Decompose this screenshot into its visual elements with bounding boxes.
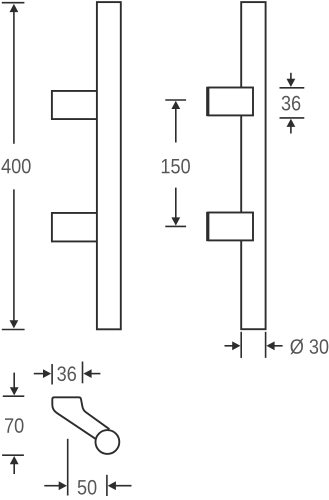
dim 150 line upper segment [175, 107, 177, 143]
mounting block 2 (left view) [52, 213, 97, 242]
dim 36 right: bottom tick [280, 117, 305, 119]
dim 36 right: arrow tail bottom [290, 125, 292, 134]
block 2 thick left edge [206, 212, 209, 241]
handle bar (left side view) [97, 2, 121, 329]
dim 50 arrowhead right [59, 481, 67, 490]
dim 50: right tick [106, 475, 108, 496]
dim d30 left arrow tail [225, 345, 234, 347]
dim d30 arrowhead left [266, 341, 274, 350]
dim 50: left extension line [67, 439, 69, 496]
dim 150 arrowhead down [171, 217, 180, 225]
label 400 [2, 159, 31, 174]
dim 36 side arrowhead left [83, 369, 91, 378]
dim 70: top tick [3, 395, 25, 397]
block 1 thick left edge [206, 87, 209, 116]
dim 36 side: right tick [82, 362, 84, 384]
label 36 (foot width) [57, 366, 76, 381]
handle bar (right front view) [241, 2, 265, 329]
dim 70: bottom arrow tail [13, 463, 15, 474]
dim d30 right arrow tail [274, 345, 283, 347]
dim 150 top tick [165, 99, 186, 101]
dim d30 right extension line [265, 332, 267, 358]
dim 150 arrowhead up [171, 101, 180, 109]
dim 36 right: top tick [280, 87, 305, 89]
dim 50: left arrow tail [44, 485, 59, 487]
side profile view (bottom-left): grip arm [52, 397, 109, 438]
dim 36 side arrowhead right [43, 369, 51, 378]
dim 70: top arrow tail [13, 373, 15, 389]
dim 36 side: left arrow tail [34, 373, 44, 375]
dim 36 right arrowhead down [287, 79, 296, 87]
dim 50 arrowhead left [108, 481, 116, 490]
dim 36 side: left tick [51, 364, 53, 385]
label diameter 30 [290, 339, 328, 354]
mounting block 2 (front view) [208, 213, 253, 241]
grip rod cross-section circle [96, 430, 120, 454]
dim 400 line lower segment [13, 189, 15, 322]
dim d30 left extension line [240, 332, 242, 358]
label 150 [162, 159, 190, 174]
mounting block 1 (left view) [52, 91, 97, 119]
dim 400 line upper segment [13, 10, 15, 144]
mounting block 1 (front view) [208, 88, 253, 116]
dim 70 arrowhead down [10, 387, 19, 395]
label 50 [78, 480, 97, 495]
label 36 (block height) [282, 96, 301, 111]
dim 50: right arrow tail [115, 485, 132, 487]
label 70 [5, 418, 24, 433]
dim 70 arrowhead up [10, 456, 19, 464]
dim 400 bottom extension tick [2, 329, 25, 331]
dim 36 right arrowhead up [287, 119, 296, 127]
dim d30 arrowhead right [232, 341, 240, 350]
dim 150 bottom tick [165, 225, 186, 227]
dim 400 arrowhead up [10, 4, 19, 12]
dim 400 arrowhead down [10, 320, 19, 328]
dim 70: bottom tick [2, 454, 24, 456]
dim 36 side: right arrow tail [91, 373, 101, 375]
dim 150 line lower segment [175, 188, 177, 220]
dim 400 top extension tick [2, 2, 25, 4]
dim 36 right: arrow tail top [290, 73, 292, 81]
